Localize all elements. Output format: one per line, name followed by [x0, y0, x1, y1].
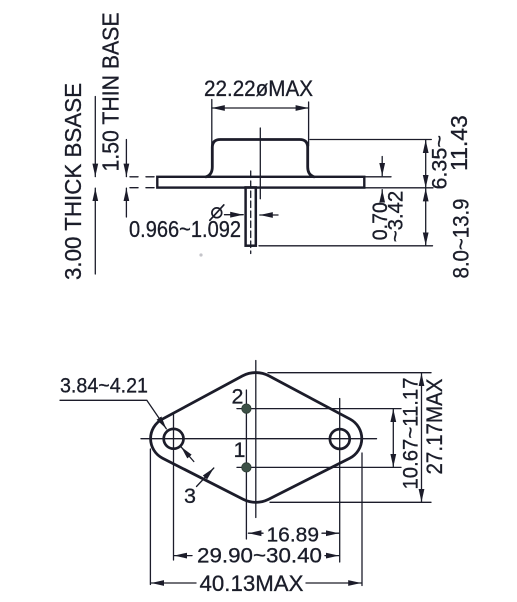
pin column extension line	[245, 390, 247, 539]
dimension 16.89 left segment	[248, 532, 263, 534]
flange (base) outline	[157, 177, 364, 188]
svg-text:~3.42: ~3.42	[385, 191, 408, 243]
left hole extension down	[173, 414, 175, 560]
pin 1 dot	[242, 463, 251, 472]
dimension 29.90~30.40 right segment	[325, 555, 339, 557]
vertical centerline	[255, 361, 257, 518]
svg-text:0.966~1.092: 0.966~1.092	[129, 216, 241, 242]
thick base leader upper	[94, 97, 96, 177]
case leader arrow from 3	[197, 468, 214, 487]
leader arrow left to pin	[260, 214, 278, 216]
pin outline	[246, 187, 256, 245]
thin base leader upper	[125, 140, 127, 177]
horizontal centerline	[141, 438, 377, 440]
flange bottom extension right	[366, 187, 434, 189]
svg-text:2: 2	[232, 385, 244, 409]
dimension line 22.22	[212, 107, 309, 109]
transistor cap outline	[206, 140, 314, 177]
thick base leader lower	[94, 188, 96, 274]
svg-text:8.0~13.9: 8.0~13.9	[449, 199, 474, 279]
extension line right 22.22	[308, 102, 310, 146]
svg-text:1.50 THIN BASE: 1.50 THIN BASE	[98, 13, 124, 172]
left flange extension down	[149, 449, 151, 585]
dimension 29.90~30.40 left segment	[174, 555, 192, 557]
pin 2 row line	[237, 408, 401, 410]
pin bottom extension right	[259, 245, 433, 247]
hole leader line	[60, 400, 166, 429]
scan speck	[199, 253, 202, 256]
svg-text:16.89: 16.89	[267, 523, 320, 546]
pin 1 row line	[237, 466, 401, 468]
dimension line 10.67~11.17	[392, 409, 394, 467]
dashed base extension top	[130, 176, 157, 178]
svg-text:1: 1	[234, 438, 246, 462]
hole counter arrow	[181, 447, 194, 462]
dimension 16.89 right segment	[322, 532, 339, 534]
cap top extension line right	[310, 139, 431, 141]
svg-text:10.67~11.17: 10.67~11.17	[399, 378, 423, 490]
mounting hole right	[330, 429, 350, 449]
dimension line 8.0~13.9	[425, 188, 427, 245]
extension line left 22.22	[211, 100, 213, 148]
dimension 40.13MAX left segment	[151, 582, 196, 584]
thin base leader lower	[125, 188, 127, 217]
bottom vertex extension	[270, 501, 431, 503]
mounting hole left	[164, 429, 184, 449]
diameter symbol for pin	[212, 208, 222, 218]
svg-text:3.00 THICK BSASE: 3.00 THICK BSASE	[60, 83, 86, 280]
svg-text:11.43: 11.43	[446, 115, 472, 171]
vertical centerline of can	[259, 128, 261, 199]
dimension line 27.17MAX	[421, 373, 423, 502]
dashed base extension bottom	[130, 187, 157, 189]
svg-text:40.13MAX: 40.13MAX	[200, 571, 304, 596]
right hole extension down	[339, 399, 341, 563]
svg-text:3.84~4.21: 3.84~4.21	[60, 375, 148, 398]
right flange extension down	[361, 453, 363, 586]
flange thickness leader lower	[381, 190, 383, 201]
svg-text:27.17MAX: 27.17MAX	[422, 378, 447, 474]
pin 2 dot	[242, 404, 251, 413]
leader arrow right to pin	[225, 214, 244, 216]
svg-text:3: 3	[184, 484, 196, 508]
dimension 40.13MAX right segment	[306, 582, 361, 584]
flange top extension right	[366, 176, 392, 178]
flange thickness leader upper	[381, 157, 383, 176]
pin dashed centerline	[250, 171, 252, 254]
svg-text:29.90~30.40: 29.90~30.40	[197, 545, 322, 568]
svg-text:22.22øMAX: 22.22øMAX	[204, 76, 313, 101]
top vertex extension	[268, 372, 431, 374]
bottom view: flange outline (diamond)	[151, 373, 362, 503]
dimension line 6.35~11.43	[425, 140, 427, 188]
